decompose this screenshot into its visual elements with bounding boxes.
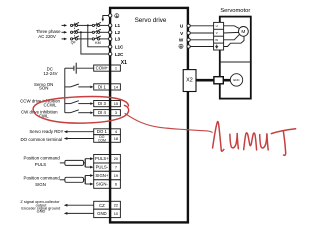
svg-text:Servomotor: Servomotor — [220, 8, 250, 14]
svg-text:CCWL: CCWL — [44, 102, 57, 107]
svg-text:V: V — [216, 31, 218, 35]
svg-text:19: 19 — [114, 173, 118, 178]
svg-text:AC 220V: AC 220V — [38, 34, 56, 39]
svg-text:CZ: CZ — [99, 203, 105, 208]
svg-text:GND: GND — [37, 209, 46, 214]
svg-text:X1: X1 — [121, 60, 127, 66]
svg-text:KM: KM — [95, 41, 101, 45]
svg-text:6: 6 — [115, 182, 117, 187]
svg-text:7: 7 — [115, 165, 117, 170]
svg-text:DI 4: DI 4 — [98, 110, 106, 115]
svg-text:L3: L3 — [115, 37, 121, 42]
svg-text:15: 15 — [114, 101, 118, 106]
svg-text:SON: SON — [39, 86, 49, 91]
svg-text:COM+: COM+ — [96, 66, 109, 71]
svg-text:X2: X2 — [186, 78, 193, 84]
svg-text:L2: L2 — [115, 30, 121, 35]
svg-text:Position command: Position command — [24, 176, 61, 181]
svg-text:1: 1 — [115, 66, 117, 71]
svg-text:3: 3 — [115, 110, 117, 115]
svg-text:18: 18 — [114, 136, 118, 141]
svg-text:DI 1: DI 1 — [98, 84, 106, 89]
svg-text:Servo drive: Servo drive — [135, 17, 167, 24]
svg-text:Servo ready RDY: Servo ready RDY — [29, 129, 63, 134]
svg-text:22: 22 — [114, 203, 118, 208]
svg-text:SIGN-: SIGN- — [96, 182, 109, 187]
svg-text:U: U — [216, 24, 218, 28]
svg-text:L2C: L2C — [115, 52, 124, 57]
svg-text:PULS+: PULS+ — [95, 156, 109, 161]
svg-text:PULS: PULS — [35, 162, 47, 167]
svg-text:Position command: Position command — [24, 155, 61, 160]
svg-text:COM: COM — [98, 138, 106, 142]
svg-text:DI 3: DI 3 — [98, 101, 106, 106]
svg-text:DO common terminal: DO common terminal — [21, 137, 63, 142]
svg-text:L1C: L1C — [115, 45, 124, 50]
svg-text:M: M — [241, 29, 245, 35]
svg-text:W: W — [179, 38, 184, 43]
svg-text:GND: GND — [97, 211, 107, 216]
svg-text:ENC: ENC — [233, 78, 239, 82]
svg-text:L1: L1 — [115, 23, 121, 28]
svg-text:SIGN+: SIGN+ — [95, 173, 109, 178]
svg-text:QF: QF — [71, 41, 77, 45]
svg-text:W: W — [215, 38, 218, 42]
svg-text:12-24V: 12-24V — [43, 71, 57, 76]
svg-text:PULS-: PULS- — [96, 165, 109, 170]
svg-text:SIGN: SIGN — [35, 182, 46, 187]
svg-text:DO 1: DO 1 — [97, 129, 108, 134]
